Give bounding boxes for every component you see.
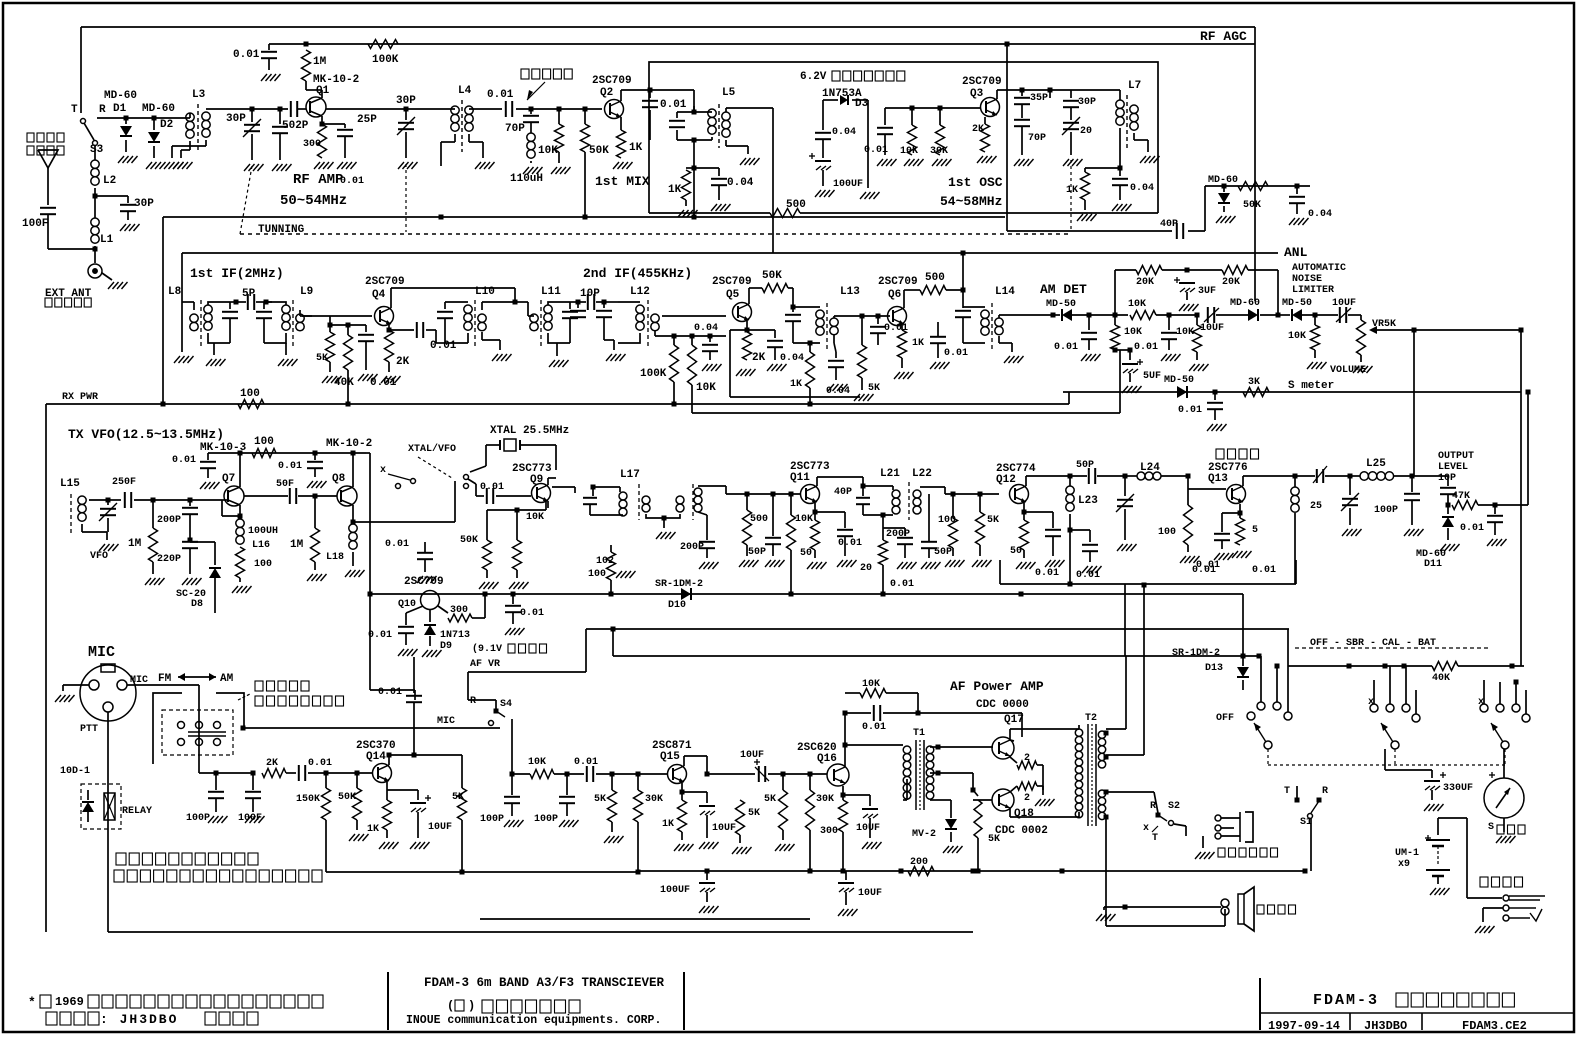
wire Q2 emitter (620, 117, 622, 130)
svg-text:MK-10-2: MK-10-2 (326, 438, 372, 450)
svg-text:50P: 50P (748, 547, 766, 558)
transistor Q2 2SC709 (592, 75, 632, 119)
svg-text:T1: T1 (913, 728, 925, 739)
svg-text:30P: 30P (1078, 97, 1096, 108)
svg-text:5K: 5K (748, 808, 760, 819)
svg-text:RF AGC: RF AGC (1200, 29, 1247, 44)
title text INOUE corp (406, 1014, 661, 1027)
resistor 100 l16 (232, 547, 272, 593)
capacitor 200P a (157, 498, 198, 541)
svg-text:(9.1V: (9.1V (472, 643, 502, 655)
svg-text:R: R (470, 696, 476, 707)
wire mic pin2 (127, 685, 199, 773)
svg-text:OUTPUT: OUTPUT (1438, 451, 1474, 462)
capacitor 0.01 q4 (387, 322, 457, 352)
resistor 10K if2 (688, 336, 717, 413)
resistor 5K l13 (854, 316, 880, 401)
label AF Power AMP (950, 679, 1044, 694)
title right kanji FDAM-3 circuit (1313, 992, 1514, 1009)
svg-text:54~58MHz: 54~58MHz (940, 194, 1002, 209)
svg-text:500: 500 (750, 514, 768, 525)
svg-text:30K: 30K (645, 794, 663, 805)
svg-text:AM DET: AM DET (1040, 282, 1087, 297)
svg-text:CDC 0000: CDC 0000 (976, 699, 1029, 711)
capacitor 0.01 q10b (505, 594, 544, 635)
wire x810 drop (809, 830, 811, 871)
svg-text:0.01: 0.01 (660, 99, 687, 111)
svg-text:1M: 1M (128, 538, 142, 550)
wire Q9 collector xtal (548, 470, 556, 485)
svg-text:100: 100 (240, 388, 260, 400)
svg-text:OFF - SBR - CAL - BAT: OFF - SBR - CAL - BAT (1310, 638, 1436, 649)
resistor 10K q9 (509, 510, 544, 589)
svg-text:5P: 5P (242, 288, 256, 300)
capacitor 50P tx (748, 494, 785, 567)
wire Q11 collector (817, 477, 866, 498)
Q16 collector riser (843, 711, 848, 768)
resistor 50K q9 (460, 510, 499, 589)
svg-text:5K: 5K (452, 792, 464, 803)
capacitor 0.01 rfamp (340, 176, 364, 187)
fet Q8 MK-10-2 (298, 473, 357, 506)
svg-text:SR-1DM-2: SR-1DM-2 (1172, 648, 1220, 659)
wire Q8 drain (351, 451, 356, 488)
svg-text:x: x (1143, 823, 1149, 834)
svg-text:x9: x9 (1398, 859, 1410, 870)
T1 secondary taps (930, 745, 993, 806)
resistor 100 rxpwr (238, 388, 264, 409)
svg-text:AF VR: AF VR (470, 659, 500, 670)
coil L23 (1066, 476, 1098, 533)
capacitor 50P q12 (1070, 460, 1125, 484)
label AM DET (1040, 282, 1087, 310)
capacitor 10UF coupling (705, 750, 828, 782)
svg-text:10UF: 10UF (740, 750, 764, 761)
speaker wires (1096, 860, 1225, 926)
dashed tunning right (1070, 160, 1072, 232)
svg-text:Q15: Q15 (660, 751, 680, 763)
svg-text:MD-60: MD-60 (1208, 175, 1238, 186)
wire Q1 to L4 (326, 107, 455, 112)
svg-text:Q3: Q3 (970, 88, 984, 100)
svg-text:5K: 5K (316, 353, 328, 364)
svg-text:Q8: Q8 (332, 473, 346, 485)
svg-text:2SC709: 2SC709 (592, 75, 632, 87)
svg-text:220P: 220P (157, 554, 181, 565)
resistor 300 Q1 (303, 124, 334, 169)
svg-text:20: 20 (1080, 126, 1092, 137)
svg-text:D13: D13 (1205, 663, 1223, 674)
svg-text:1K: 1K (1066, 185, 1078, 196)
svg-text:0.01: 0.01 (574, 757, 598, 768)
svg-text:0.01: 0.01 (172, 455, 196, 466)
svg-text:MD-50: MD-50 (1046, 299, 1076, 310)
wire q4base stub (329, 316, 331, 325)
wire s1 top (1296, 785, 1298, 787)
wire L6 right (772, 108, 774, 253)
svg-text:200P: 200P (680, 542, 704, 553)
diode MD-60 agc (1208, 175, 1238, 223)
wire y932 extend (972, 930, 974, 932)
label Q17 (1004, 714, 1024, 726)
svg-text:MD-50: MD-50 (1164, 375, 1194, 386)
capacitor 0.01 det1 (1054, 313, 1101, 362)
svg-text:200: 200 (910, 857, 928, 868)
svg-text:1st OSC: 1st OSC (948, 175, 1003, 190)
svg-text:L13: L13 (840, 286, 860, 298)
switch S4 (468, 696, 512, 774)
label 6.2V zener (800, 71, 905, 83)
svg-text:1N713: 1N713 (440, 630, 470, 641)
label ANL (1284, 245, 1346, 296)
capacitor 100F (22, 208, 56, 249)
wire Q7 source (222, 500, 240, 521)
tank L21 L22 (856, 468, 953, 520)
svg-text:100F: 100F (22, 218, 48, 230)
wire R to D1 (97, 117, 190, 119)
svg-text:10K: 10K (1288, 331, 1306, 342)
resistor 100K if2 (640, 336, 679, 407)
svg-text:50F: 50F (276, 479, 294, 490)
coil 110uH (510, 133, 543, 185)
wire line y629 (586, 628, 1289, 630)
title separator center-left (387, 972, 389, 1030)
capacitor 0.01 q9 (480, 482, 531, 504)
capacitor 10UF q15e (682, 792, 736, 849)
svg-text:JH3DBO: JH3DBO (1364, 1019, 1407, 1033)
wire Q4 divider (322, 324, 366, 326)
label IF trap (521, 69, 572, 100)
svg-text:0.04: 0.04 (694, 323, 718, 334)
resistor 30K q16 (806, 774, 835, 871)
capacitor 330UF (1385, 749, 1473, 811)
antenna symbol (38, 150, 58, 205)
note jp line2 (114, 870, 322, 882)
svg-text:100: 100 (588, 569, 606, 580)
svg-text:S3: S3 (90, 144, 104, 156)
svg-text:MD-50: MD-50 (1282, 298, 1312, 309)
capacitor 100UF fb (660, 871, 719, 913)
svg-text:30P: 30P (226, 113, 246, 125)
transformer L11 (528, 286, 578, 367)
svg-text:L12: L12 (630, 286, 650, 298)
title kanji (INOUE seisakusho) (447, 999, 580, 1013)
svg-text:D8: D8 (191, 599, 203, 610)
svg-text:VR5K: VR5K (1372, 319, 1396, 330)
resistor 1M vfo (128, 498, 165, 586)
wire right v x1528 (1495, 390, 1531, 506)
svg-text:0.01: 0.01 (890, 579, 914, 590)
svg-text:PTT: PTT (80, 724, 98, 735)
Q5 emitter network (730, 320, 860, 397)
wire Q3 collector (997, 90, 1050, 99)
bottom-left note line1 (28, 995, 323, 1010)
svg-text:L11: L11 (541, 286, 561, 298)
tank cap L5 (669, 112, 694, 140)
capacitor 0.04 L5 (694, 168, 754, 211)
resistor 5K tx2 (972, 494, 999, 567)
capacitor 50P tx2 (921, 494, 952, 569)
svg-text:D9: D9 (440, 641, 452, 652)
svg-text:1K: 1K (668, 184, 682, 196)
svg-text:30K: 30K (930, 146, 948, 157)
capacitor 30P osc (1048, 88, 1068, 108)
resistor 500 osc (770, 199, 806, 218)
wire volume out vert (1519, 328, 1524, 333)
svg-text:5K: 5K (988, 834, 1000, 845)
trimmer 30P (226, 107, 264, 172)
switch wafer1 OFF (1216, 629, 1292, 749)
svg-text:20K: 20K (1136, 277, 1154, 288)
transistor Q12 2SC774 (996, 463, 1036, 504)
svg-text:0.01: 0.01 (487, 89, 514, 101)
svg-text:0.01: 0.01 (378, 687, 402, 698)
svg-text:0.01: 0.01 (520, 608, 544, 619)
capacitor 0.01 q6e (925, 316, 968, 369)
switch wafer2 (1368, 666, 1420, 749)
wire y599 bus (560, 598, 1243, 600)
svg-text:R: R (99, 104, 106, 116)
svg-text:0.01: 0.01 (308, 758, 332, 769)
svg-text:0.01: 0.01 (278, 461, 302, 472)
svg-text:30K: 30K (816, 794, 834, 805)
svg-text:2: 2 (1024, 793, 1030, 804)
label 50-54MHz (280, 193, 347, 209)
label 1st OSC (948, 175, 1003, 190)
mic gnd wire (55, 685, 89, 702)
svg-text:2K: 2K (972, 124, 984, 135)
capacitor 200P b (157, 538, 202, 586)
svg-text:10UF: 10UF (856, 823, 880, 834)
svg-text:FDAM-3: FDAM-3 (1313, 992, 1379, 1009)
switch S3 (81, 27, 104, 160)
capacitor 0.01 vfo rail (172, 453, 220, 489)
svg-text:Q7: Q7 (222, 473, 235, 485)
svg-text:0.01: 0.01 (944, 348, 968, 359)
resistor 20 l21 (860, 540, 888, 597)
label 2nd IF (583, 266, 692, 281)
capacitor 0.01 smeter (1178, 390, 1227, 432)
svg-text:Q13: Q13 (1208, 473, 1228, 485)
resistor 5K q15 (594, 774, 624, 843)
wire L9 to Q4 (302, 315, 372, 317)
wire Q1 drain (306, 81, 322, 98)
label RF AMP (293, 172, 343, 188)
svg-text:UM-1: UM-1 (1395, 848, 1419, 859)
wire Q17 collector to T2 (1010, 729, 1079, 741)
wire bus y44 (269, 43, 1255, 45)
transformer L9 (256, 286, 313, 366)
tank L20 (680, 484, 726, 569)
svg-text:Q18: Q18 (1014, 808, 1034, 820)
svg-text:L5: L5 (722, 87, 736, 99)
crystal XTAL 25.5MHz (470, 425, 569, 472)
svg-text:100P: 100P (480, 814, 504, 825)
svg-text:100P: 100P (534, 814, 558, 825)
capacitor 0.01 q11 (815, 512, 862, 567)
wire osc base (885, 106, 980, 111)
svg-text:47K: 47K (1452, 491, 1470, 502)
capacitor 0.01 rail2 (278, 451, 327, 489)
svg-text:L3: L3 (192, 89, 206, 101)
svg-text:0.01: 0.01 (862, 722, 886, 733)
svg-text:102: 102 (596, 556, 614, 567)
svg-text:10UF: 10UF (858, 888, 882, 899)
svg-text:20K: 20K (1222, 277, 1240, 288)
svg-text:MV-2: MV-2 (912, 829, 936, 840)
svg-text:100: 100 (938, 515, 956, 526)
svg-text:0.04: 0.04 (1308, 209, 1332, 220)
svg-text:L15: L15 (60, 478, 80, 490)
svg-text:Q12: Q12 (996, 474, 1016, 486)
transformer L4 (441, 85, 495, 169)
svg-text:T: T (71, 104, 78, 116)
wire fb y872 (326, 870, 641, 875)
svg-text:Q5: Q5 (726, 289, 740, 301)
svg-text:0.01: 0.01 (864, 145, 888, 156)
svg-text:Q6: Q6 (888, 289, 901, 301)
label RF AGC (1200, 29, 1247, 44)
title vline3 (1421, 1013, 1423, 1030)
wire L13 out (834, 314, 890, 319)
svg-text:0.01: 0.01 (385, 539, 409, 550)
transformer L7 (1071, 80, 1160, 163)
svg-text:100UF: 100UF (833, 179, 863, 190)
potentiometer VR5K (1330, 319, 1521, 376)
diode D2 MD-60 (142, 103, 175, 169)
capacitor 502P (272, 107, 309, 172)
capacitor 0.01 if1 (348, 325, 397, 389)
wire agc det row (1205, 184, 1310, 189)
transistor Q15 2SC871 (652, 740, 692, 784)
dashed tunning drop2 (405, 164, 407, 232)
resistor 2K pre (262, 758, 286, 778)
T1 primary bottom (845, 779, 907, 800)
resistor 2K if (381, 324, 410, 383)
wire x1125 drop (1124, 584, 1126, 656)
resistor 10K osc (900, 108, 924, 166)
capacitor 30P antenna (95, 196, 154, 231)
svg-text:300: 300 (450, 605, 468, 616)
Q15 collector (684, 756, 707, 774)
svg-text:R: R (1322, 786, 1328, 797)
svg-text:300: 300 (303, 139, 321, 150)
jack S2 earphone (1143, 792, 1180, 844)
svg-text:5: 5 (1252, 525, 1258, 536)
ANL loop top (1114, 270, 1116, 315)
label EXT ANT (45, 288, 92, 307)
svg-text:0.01: 0.01 (1035, 568, 1059, 579)
wire preamp row (199, 755, 256, 776)
resistor 47K out (1452, 491, 1521, 510)
T1 transformer (845, 728, 934, 810)
Q14 emitter (367, 781, 411, 849)
svg-text:50P: 50P (1076, 460, 1094, 471)
svg-text:50K: 50K (762, 270, 782, 282)
wire Q13 collector (1243, 474, 1298, 487)
svg-text:50~54MHz: 50~54MHz (280, 193, 347, 209)
wire L5 down (692, 138, 697, 220)
wire bus y871 (638, 869, 1308, 874)
capacitor 200P l21 (883, 526, 917, 569)
node L4 bottom (439, 215, 444, 220)
svg-text:(: ( (447, 999, 454, 1013)
svg-text:1K: 1K (367, 824, 379, 835)
svg-text:RX PWR: RX PWR (62, 392, 98, 403)
svg-text:25: 25 (1310, 501, 1322, 512)
label CDC 0000 (976, 699, 1029, 711)
svg-text:10K: 10K (1128, 299, 1146, 310)
svg-text:Q11: Q11 (790, 472, 810, 484)
resistor 5K q14 (452, 755, 467, 875)
svg-text:MD-60: MD-60 (142, 103, 175, 115)
node ant join (48, 247, 98, 264)
svg-text:AM: AM (220, 673, 234, 685)
svg-text:10K: 10K (538, 145, 558, 157)
wire L21 bottom (881, 513, 886, 541)
svg-text:40P: 40P (834, 487, 852, 498)
capacitor 10UF out (838, 871, 882, 916)
svg-text:10K: 10K (795, 514, 813, 525)
svg-text:0.04: 0.04 (826, 386, 850, 397)
resistor 2 q17 (1010, 753, 1043, 790)
svg-text:10D-1: 10D-1 (60, 766, 90, 777)
capacitor 0.04 q5 (747, 330, 804, 371)
resistor 100 rail (252, 436, 276, 458)
svg-text:2SC709: 2SC709 (878, 276, 918, 288)
node L2-L1 (93, 194, 98, 199)
wire AGC drop (1005, 42, 1010, 232)
ext ant jack (88, 264, 128, 289)
svg-text:SR-1DM-2: SR-1DM-2 (655, 579, 703, 590)
trimmer 30P/20 osc (1050, 90, 1096, 166)
wire x963 from rail (961, 251, 966, 291)
resistor 10K tx (787, 494, 814, 597)
resistor 100 l24 (1158, 476, 1200, 563)
wire af vr line (468, 629, 586, 700)
capacitor 10UF q14 (387, 790, 452, 849)
wire q7 gate join (244, 479, 296, 504)
transformer L10 (436, 286, 518, 361)
svg-text:0.01: 0.01 (233, 49, 260, 61)
capacitor 100UF zener (809, 153, 863, 197)
svg-text:x: x (380, 465, 386, 476)
svg-text:200P: 200P (886, 529, 910, 540)
svg-text:1K: 1K (662, 819, 674, 830)
transistor Q17 (992, 737, 1014, 759)
svg-text:3K: 3K (1248, 377, 1260, 388)
svg-text:2nd IF(455KHz): 2nd IF(455KHz) (583, 266, 692, 281)
resistor 10K det v (1111, 315, 1143, 353)
svg-text:RF AMP: RF AMP (293, 172, 343, 188)
wire 40K row (1275, 664, 1433, 669)
feedback 0.01 cap (845, 705, 921, 733)
capacitor 0.04 if2 (694, 323, 722, 371)
dashed switch label (1295, 637, 1490, 649)
resistor 30K q15 (634, 774, 664, 872)
labels 0.01 out (1192, 565, 1276, 576)
zener D9 1N713 (422, 610, 547, 657)
capacitor 100P q15b (534, 774, 579, 827)
capacitor 25P (320, 114, 378, 169)
capacitor tank l12a (596, 302, 626, 361)
label whip antenna (27, 133, 64, 155)
resistor 10K det h (1128, 299, 1156, 320)
title JH3DBO (1364, 1019, 1407, 1033)
VFO coil L15 (60, 478, 108, 562)
label OUTPUT LEVEL (1438, 451, 1474, 473)
wire L4 sec to cap (469, 108, 502, 110)
